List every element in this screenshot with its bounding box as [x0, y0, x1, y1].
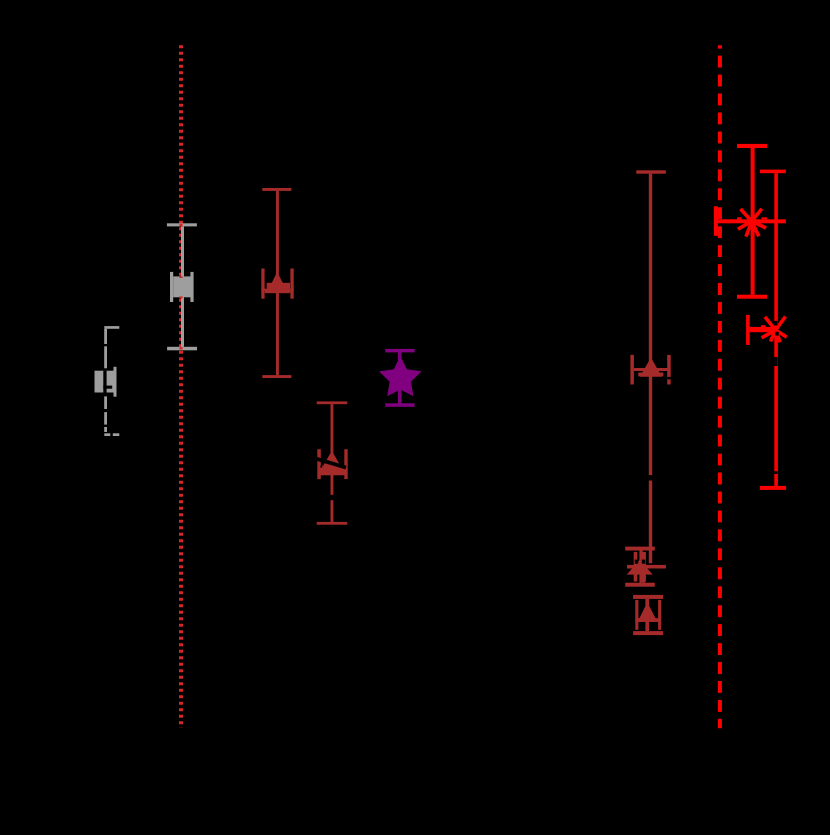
black gaps on H line — [774, 321, 778, 326]
red point H: asterisk marker spokes — [763, 318, 785, 341]
black notches on C2 — [320, 466, 322, 468]
red point H: error bars — [746, 170, 786, 490]
firebrick point E: triangle marker — [640, 358, 662, 377]
black patch on H marker center — [775, 332, 779, 336]
firebrick cluster D: error bars — [625, 547, 666, 587]
firebrick point C2: triangle marker — [321, 451, 342, 469]
black notch on C2 lower line — [331, 495, 335, 500]
firebrick point C: triangle marker — [267, 272, 288, 293]
dotted vertical reference line (left average) — [179, 45, 183, 728]
purple point P: star marker — [379, 356, 421, 396]
firebrick point E: error bars — [630, 170, 670, 563]
gray point A: error bars — [167, 223, 197, 350]
firebrick cluster F: triangle marker — [638, 602, 658, 622]
black notch on E line — [649, 475, 653, 481]
firebrick cluster F: error bars — [633, 595, 663, 635]
firebrick cluster D: triangle marker — [627, 560, 653, 575]
gray point B: square marker — [95, 371, 117, 393]
firebrick point C: error bars — [261, 188, 293, 378]
black dots on D — [635, 560, 639, 564]
black notch on E right x-cap — [667, 377, 671, 380]
black overlay slit vertical on B — [103, 371, 106, 393]
black slash overlay on C2 — [316, 459, 346, 468]
red dots overlaying gray point A (line z-order) — [179, 224, 182, 350]
purple point P: error bars — [385, 349, 414, 407]
red point G: error bars — [714, 144, 786, 299]
gray point B: right x-cap — [114, 367, 117, 397]
gray point A: square marker — [173, 276, 190, 297]
dashed vertical reference line (right average) — [718, 45, 722, 728]
red point G: asterisk marker spokes — [740, 210, 765, 235]
black overlay slit horizontal on B — [103, 386, 112, 389]
gray point B: dashed error bars — [104, 326, 119, 436]
firebrick point C2: error bars — [317, 401, 348, 524]
